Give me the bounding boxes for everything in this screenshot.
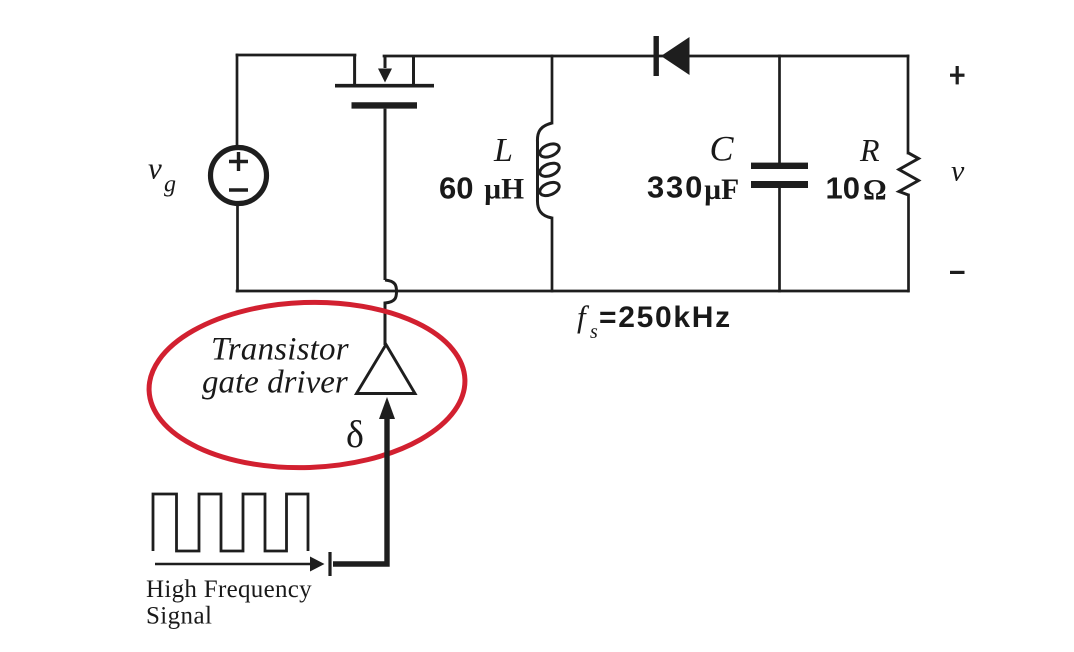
source lead xyxy=(412,56,415,84)
svg-text:R: R xyxy=(859,132,880,168)
output minus mark xyxy=(950,271,965,274)
signal axis arrow xyxy=(155,557,325,572)
wire capacitor branch top lead xyxy=(778,56,781,163)
svg-text:L: L xyxy=(493,132,513,169)
diode D1 xyxy=(654,36,690,76)
wire inductor branch bottom lead xyxy=(551,218,554,291)
svg-text:10Ω: 10Ω xyxy=(826,171,887,207)
svg-text:High Frequency: High Frequency xyxy=(146,576,312,603)
svg-text:C: C xyxy=(710,129,735,169)
gate lead down xyxy=(384,109,387,280)
red highlight ellipse xyxy=(146,297,468,473)
source/body arrow lead xyxy=(384,56,387,68)
wire gate crossing hop over bottom rail xyxy=(385,280,397,345)
svg-text:δ: δ xyxy=(346,414,364,456)
wire bottom rail xyxy=(237,290,908,293)
svg-text:Signal: Signal xyxy=(146,603,212,630)
svg-text:g: g xyxy=(164,172,176,198)
wire left branch: source bottom lead xyxy=(236,206,239,291)
channel bar xyxy=(335,84,434,88)
wire inductor branch top lead xyxy=(551,56,554,123)
inductor L xyxy=(537,123,561,218)
resistor R xyxy=(899,153,919,195)
output plus mark xyxy=(950,66,965,84)
wire capacitor branch bottom lead xyxy=(778,188,781,291)
label vg xyxy=(148,151,176,198)
wire output branch top lead xyxy=(907,56,910,153)
svg-text:gate driver: gate driver xyxy=(202,365,348,401)
svg-text:330µF: 330µF xyxy=(647,170,739,207)
capacitor C xyxy=(751,163,808,188)
svg-text:Transistor: Transistor xyxy=(211,332,349,368)
drain lead xyxy=(353,55,356,84)
svg-text:60 µH: 60 µH xyxy=(439,171,524,206)
wire output branch bottom lead xyxy=(907,195,910,291)
wire top-left rail from source to transistor drain xyxy=(237,54,355,57)
svg-text:v: v xyxy=(148,151,162,186)
gate bar xyxy=(352,102,418,108)
svg-text:v: v xyxy=(951,155,965,188)
label High Frequency Signal xyxy=(146,576,312,630)
label fs = 250kHz xyxy=(577,299,732,343)
gate driver buffer triangle xyxy=(357,345,416,394)
wire left branch: source top lead xyxy=(236,55,239,146)
voltage source vg xyxy=(211,148,267,204)
svg-text:s: s xyxy=(590,321,598,343)
thick drive arrow into buffer xyxy=(333,397,395,564)
svg-text:=250kHz: =250kHz xyxy=(599,301,732,334)
wire top-right rail from transistor source to output corner xyxy=(384,55,908,58)
label Transistor gate driver xyxy=(202,332,349,401)
tick bar at arrow head xyxy=(328,552,331,576)
transistor Q1 (MOSFET) xyxy=(335,55,434,280)
square wave signal xyxy=(153,494,308,551)
